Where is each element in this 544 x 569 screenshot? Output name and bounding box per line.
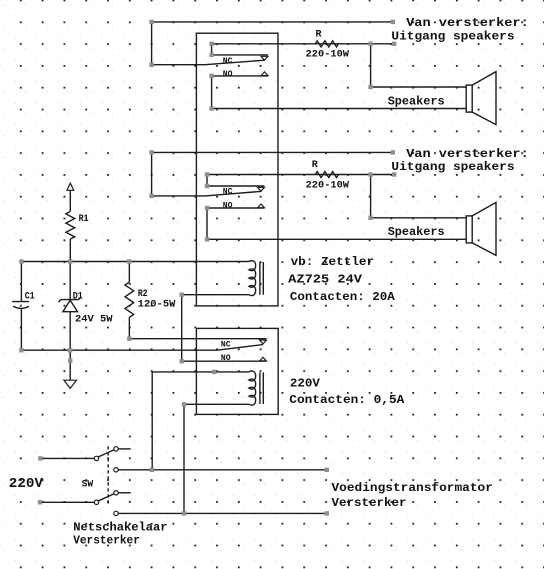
svg-text:NO: NO [223, 70, 233, 79]
svg-text:NC: NC [223, 57, 233, 66]
wire speaker 1 top [371, 86, 467, 88]
junction [149, 20, 153, 24]
wire NO out to speaker 2 [207, 238, 466, 240]
switch SW pole 1 throw down [114, 468, 118, 472]
wire switched L to transformer [118, 469, 326, 471]
svg-text:R: R [312, 160, 318, 171]
svg-text:vb: Zettler: vb: Zettler [291, 255, 375, 269]
junction [149, 194, 153, 198]
switch SW pole 2 arm [98, 494, 114, 501]
junction [205, 172, 209, 176]
junction [325, 468, 329, 472]
svg-text:220-10W: 220-10W [306, 50, 349, 61]
wire coil 2 top lead [152, 371, 249, 373]
wire speaker 2 feed vertical [370, 175, 372, 218]
relay K1 box [196, 33, 278, 306]
junction [127, 259, 131, 263]
switch SW pole 2 common [94, 500, 98, 504]
svg-text:R1: R1 [79, 214, 89, 225]
capacitor C1 plates [12, 301, 29, 303]
contact NO line set 2 [207, 207, 264, 209]
wire ground bus [21, 345, 263, 351]
svg-text:Van versterker:: Van versterker: [406, 147, 529, 161]
svg-text:Van versterker:: Van versterker: [406, 16, 529, 30]
speaker 1 [466, 85, 472, 112]
resistor R2 zigzag [125, 282, 134, 317]
wire NC lead out set 1 [212, 43, 395, 45]
wire coil 1 bottom lead [182, 294, 249, 296]
resistor R channel 2 zigzag [315, 172, 338, 178]
switch SW link [107, 446, 109, 503]
svg-text:Speakers: Speakers [388, 225, 445, 239]
svg-text:C1: C1 [25, 292, 35, 303]
relay K2 core [260, 372, 263, 404]
junction [68, 358, 72, 362]
svg-text:Versterker: Versterker [332, 496, 407, 510]
svg-text:Uitgang speakers: Uitgang speakers [391, 160, 514, 174]
wire switched N to transformer [118, 512, 326, 514]
wire NO column set 2 [206, 208, 208, 239]
wire mains N [40, 501, 94, 503]
svg-text:Versterker: Versterker [73, 534, 140, 548]
resistor R1 [69, 190, 71, 211]
junction [180, 293, 184, 297]
svg-text:D1: D1 [73, 292, 83, 303]
junction [19, 348, 23, 352]
switch SW pole 2 throw up [114, 491, 118, 495]
capacitor C1 bottom lead [20, 309, 22, 351]
contact NC line set 3 [129, 338, 266, 340]
junction [392, 42, 396, 46]
wire vertical to relay arm 2 [151, 152, 153, 196]
junction [209, 74, 213, 78]
ground symbol [64, 380, 77, 388]
wire speaker 2 top [371, 217, 467, 219]
svg-text:R2: R2 [138, 289, 148, 300]
resistor R2 top lead [128, 262, 130, 283]
zener D1 triangle [63, 300, 78, 311]
junction [38, 500, 42, 504]
wire contact column top set 1 [211, 44, 213, 55]
ground stem [69, 350, 71, 380]
relay K1 contact arm 1 [152, 60, 265, 64]
svg-text:AZ725 24V: AZ725 24V [288, 273, 362, 287]
NC triangle set 1 [261, 56, 268, 60]
junction [368, 85, 372, 89]
wire amp output channel 1 [152, 21, 393, 23]
resistor R2 bottom lead [128, 317, 130, 338]
svg-text:NC: NC [223, 188, 233, 197]
capacitor C1 top lead [20, 262, 22, 302]
NC triangle set 3 [260, 340, 267, 344]
junction [38, 456, 42, 460]
svg-text:Netschakelaar: Netschakelaar [73, 521, 167, 535]
svg-text:Contacten: 20A: Contacten: 20A [290, 290, 395, 304]
relay K1 contact arm 2 [152, 191, 261, 196]
junction [368, 216, 372, 220]
svg-text:R: R [316, 29, 322, 40]
switch SW pole 1 stub [118, 448, 130, 450]
svg-text:Voedingstransformator: Voedingstransformator [332, 481, 493, 495]
wire amp output channel 2 [152, 151, 393, 153]
resistor R channel 1 zigzag [315, 41, 338, 47]
junction [391, 150, 395, 154]
wire NO column set 1 [211, 76, 213, 109]
contact NC line set 1 [212, 54, 268, 56]
junction [205, 206, 209, 210]
junction [368, 42, 372, 46]
junction [180, 359, 184, 363]
wire coil 1 to relay 2 NO [181, 295, 183, 362]
zener D1 top lead [69, 262, 71, 300]
relay K2 box [196, 328, 278, 414]
switch SW pole 1 common [94, 456, 98, 460]
svg-text:24V 5W: 24V 5W [75, 315, 113, 326]
wire contact column top set 2 [206, 175, 208, 187]
junction [205, 237, 209, 241]
relay K1 core [260, 262, 263, 295]
junction [68, 259, 72, 263]
relay K2 coil [249, 371, 256, 405]
wire positive bus [21, 261, 249, 263]
wire coil 2 bottom to switch [183, 404, 185, 513]
junction [149, 62, 153, 66]
NC triangle set 2 [258, 187, 265, 191]
speaker 2 [466, 216, 472, 243]
junction [149, 150, 153, 154]
arrow supply R1 [67, 183, 74, 190]
junction [212, 370, 216, 374]
svg-text:NO: NO [221, 354, 231, 363]
junction [368, 172, 372, 176]
switch SW pole 1 throw up [114, 447, 118, 451]
switch SW pole 2 stub [118, 492, 130, 494]
svg-text:220V: 220V [290, 377, 321, 391]
svg-text:SW: SW [82, 480, 94, 491]
junction [209, 106, 213, 110]
junction [209, 53, 213, 57]
svg-text:120-5W: 120-5W [138, 299, 176, 310]
junction [205, 184, 209, 188]
NO triangle set 1 [261, 72, 268, 76]
wire NC lead out set 2 [207, 174, 394, 176]
svg-text:NO: NO [223, 202, 233, 211]
svg-text:220V: 220V [9, 477, 44, 492]
switch SW pole 2 throw down [114, 511, 118, 515]
NO triangle set 2 [258, 204, 265, 208]
zener D1 cathode bar [58, 297, 81, 302]
junction [325, 511, 329, 515]
junction [182, 511, 186, 515]
svg-text:Uitgang speakers: Uitgang speakers [391, 30, 514, 44]
junction [391, 20, 395, 24]
contact NO line set 3 [182, 360, 267, 362]
wire coil 2 bottom lead [184, 403, 249, 405]
wire speaker 1 feed vertical [370, 44, 372, 87]
junction [392, 172, 396, 176]
junction [209, 42, 213, 46]
junction [68, 348, 72, 352]
relay K1 coil [249, 261, 256, 296]
junction [150, 468, 154, 472]
svg-text:220-10W: 220-10W [306, 180, 349, 191]
wire NO out to speaker 1 [212, 108, 467, 110]
NO triangle set 3 [260, 357, 267, 361]
junction [19, 259, 23, 263]
junction [127, 337, 131, 341]
svg-text:NC: NC [221, 340, 231, 349]
switch SW pole 1 arm [98, 450, 114, 457]
contact NO line set 1 [212, 75, 268, 77]
zener D1 bottom lead [69, 312, 71, 351]
junction [182, 402, 186, 406]
svg-text:Speakers: Speakers [388, 95, 445, 109]
wire coil 2 top to switch [151, 372, 153, 470]
wire vertical to relay arm 1 [151, 22, 153, 65]
wire mains L [40, 457, 94, 459]
contact NC line set 2 [207, 185, 264, 187]
svg-text:Contacten: 0,5A: Contacten: 0,5A [289, 393, 405, 407]
